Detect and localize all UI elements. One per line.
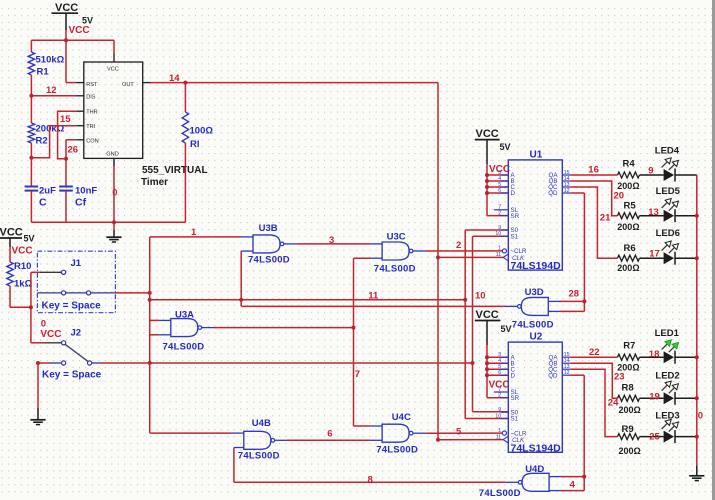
capacitor Cf 10nF (59, 186, 97, 223)
net label 2 (456, 240, 461, 251)
wire U1 QB to R5 (570, 181, 617, 216)
switch J2 arm (65, 344, 88, 361)
svg-text:DIS: DIS (86, 94, 96, 100)
net label 18 (649, 349, 660, 360)
svg-text:U2: U2 (530, 332, 543, 343)
net label 26 (68, 145, 79, 156)
wire U4D inputs from net 4 (549, 477, 584, 491)
resistor R2 200k (28, 96, 64, 158)
net label 0 at 555 ground (112, 188, 117, 199)
wire net 5 U4C out to U2 CLR (413, 432, 502, 434)
svg-text:5V: 5V (501, 324, 512, 334)
wire THR net 15 (58, 111, 84, 159)
wire CON net 26 (66, 140, 84, 187)
junction LED2 return (695, 396, 699, 400)
window edge right (712, 0, 715, 500)
svg-text:6: 6 (498, 370, 501, 376)
svg-text:12: 12 (564, 188, 570, 194)
svg-text:SR: SR (511, 213, 520, 220)
junction J2/ground (36, 361, 40, 365)
svg-text:0: 0 (41, 318, 46, 329)
svg-text:1kΩ: 1kΩ (14, 279, 33, 290)
power VCC symbol above U1 (475, 128, 511, 175)
junction OUT/RI (183, 81, 187, 85)
svg-text:100Ω: 100Ω (190, 126, 214, 137)
svg-text:LED4: LED4 (655, 145, 680, 156)
junction net11 start (148, 298, 152, 302)
junction VCC/R1/RST (64, 38, 68, 42)
LED LED1 (655, 328, 680, 364)
wire U3B lower input drop (240, 251, 242, 306)
wire R6 to LED6 (640, 257, 664, 259)
svg-text:U3D: U3D (525, 287, 544, 298)
LED LED4 (655, 145, 680, 181)
wire LED1 cathode (675, 356, 697, 358)
gate U3B NAND (248, 223, 290, 265)
wire net 3 U3B out to U3C (284, 243, 382, 245)
junction U3D inputs (582, 299, 586, 303)
wire J1/J2 common feed (30, 272, 32, 343)
svg-text:21: 21 (600, 213, 611, 224)
power VCC symbol (left, R10) (0, 227, 35, 257)
switch J1 pole terminal (31, 270, 66, 274)
svg-text:S1: S1 (511, 416, 519, 423)
svg-text:2: 2 (456, 240, 461, 251)
wire U2 VCC to A B C D SR (487, 352, 508, 398)
svg-text:200Ω: 200Ω (617, 181, 639, 191)
svg-text:74LS00D: 74LS00D (479, 488, 521, 499)
wire U1 CLK (438, 256, 503, 258)
svg-text:200Ω: 200Ω (617, 263, 639, 273)
svg-text:VCC: VCC (55, 2, 78, 14)
wire R5 to LED5 (640, 215, 664, 217)
junction U2 VCC pins (485, 355, 489, 377)
label Key = Space (J1) (42, 301, 102, 312)
label J1 (71, 258, 82, 269)
net label 6 (327, 429, 332, 440)
junction U4D inputs (582, 475, 586, 479)
wire net 1 / J1 vertical (149, 237, 151, 363)
junction LED5 return (695, 214, 699, 218)
svg-text:OUT: OUT (122, 82, 134, 88)
junction net7 / U3A out (352, 326, 356, 330)
svg-text:2: 2 (498, 393, 501, 399)
svg-text:QD: QD (548, 372, 558, 379)
net label 8 (368, 474, 373, 485)
wire U1 S1 (473, 235, 509, 237)
wire net 11 (150, 299, 466, 301)
wire J2 output line (long VCC line) (100, 362, 473, 364)
switch J2 pole terminal (31, 341, 66, 345)
svg-text:6: 6 (498, 188, 501, 194)
net label 15 (60, 114, 71, 125)
wire net 28 QD1 drop (570, 193, 584, 311)
net label 7 (355, 369, 360, 380)
LED LED2 (655, 370, 679, 405)
svg-text:200Ω: 200Ω (617, 363, 639, 373)
wire LED3 cathode (675, 436, 697, 438)
svg-text:THR: THR (86, 110, 98, 116)
junction J1 out (148, 291, 152, 295)
svg-text:1: 1 (498, 246, 501, 252)
junction net11 / U3B input (239, 298, 243, 302)
wire net 4 QD2 drop (570, 375, 584, 490)
svg-text:Cf: Cf (75, 197, 87, 209)
wire U2 S1 (465, 418, 508, 420)
shift register U2 74LS194D (494, 332, 571, 455)
label 555_VIRTUAL Timer (141, 165, 208, 188)
net label 16 (588, 164, 599, 175)
svg-text:74LS00D: 74LS00D (238, 450, 280, 461)
wire LED2 cathode (675, 397, 697, 399)
svg-text:5V: 5V (82, 16, 93, 26)
net label 0 (ground near J2) (41, 318, 46, 329)
svg-text:VCC: VCC (107, 67, 119, 73)
timer U3 555 box (84, 54, 143, 159)
wire U3D output stub (505, 305, 518, 307)
wire U2 QC to R9 (570, 369, 617, 436)
svg-text:0: 0 (112, 188, 117, 199)
net label 24 (608, 397, 619, 408)
net label 1 (191, 227, 197, 238)
net label 22 (589, 347, 600, 358)
svg-text:R4: R4 (623, 159, 636, 170)
resistor R7 200 (617, 340, 639, 372)
svg-text:555_VIRTUAL: 555_VIRTUAL (142, 165, 208, 176)
wire U3A inputs (150, 320, 171, 334)
svg-text:VCC: VCC (12, 246, 33, 257)
svg-text:LED5: LED5 (656, 186, 681, 197)
svg-text:9: 9 (648, 165, 653, 176)
svg-text:74LS00D: 74LS00D (374, 263, 416, 274)
wire R9 to LED3 (640, 436, 664, 438)
svg-text:LED2: LED2 (655, 370, 679, 381)
wire U1 VCC to A B C D SR (487, 171, 508, 216)
svg-text:VCC: VCC (40, 329, 61, 340)
svg-text:CON: CON (86, 138, 98, 144)
svg-text:12: 12 (564, 370, 570, 376)
svg-text:R1: R1 (37, 67, 50, 78)
svg-text:LED1: LED1 (655, 328, 680, 339)
LED LED5 (656, 186, 681, 222)
svg-text:8: 8 (368, 474, 373, 485)
svg-text:VCC: VCC (476, 128, 499, 140)
wire U3C lower input from net 7 (354, 257, 383, 259)
net label 21 (600, 213, 611, 224)
net label 19 (649, 391, 660, 402)
svg-text:R6: R6 (624, 243, 636, 254)
shift register U1 74LS194D (494, 149, 571, 272)
svg-text:2uF: 2uF (39, 186, 56, 197)
switch J1 box (37, 251, 115, 313)
wire 555 GND pin net 0 (113, 158, 115, 236)
svg-text:VCC: VCC (476, 309, 499, 321)
svg-text:R5: R5 (624, 200, 637, 211)
junction net 11 / S0 vertical (463, 298, 467, 302)
svg-text:74LS00D: 74LS00D (248, 254, 290, 265)
wire U1 QC to R6 (570, 187, 617, 258)
net label VCC (J2) (40, 329, 61, 340)
gate U4B NAND (238, 418, 280, 462)
svg-text:7: 7 (355, 369, 360, 380)
wire net 2 U3C out to U1 CLR (413, 250, 502, 252)
resistor RI 100 (182, 83, 213, 223)
wire RST (66, 40, 84, 82)
svg-text:74LS194D: 74LS194D (511, 260, 562, 272)
svg-text:Key = Space: Key = Space (42, 370, 102, 381)
junction J2 line / S1 vertical (471, 361, 475, 365)
wire U3A output net 7 (202, 327, 354, 329)
svg-text:R10: R10 (14, 261, 31, 272)
svg-text:11: 11 (368, 291, 379, 302)
svg-text:11: 11 (496, 252, 501, 258)
svg-text:10nF: 10nF (75, 186, 97, 197)
svg-text:RST: RST (86, 82, 98, 88)
svg-text:QD: QD (548, 190, 558, 197)
net label 3 (329, 235, 334, 246)
svg-text:TRI: TRI (86, 124, 95, 130)
junction R2/C/TRI (29, 156, 33, 160)
wire U1 S0 (465, 229, 508, 231)
resistor R8 200 (618, 383, 641, 415)
svg-text:VCC: VCC (69, 25, 90, 36)
wire U2 CLK (438, 439, 503, 441)
svg-text:9: 9 (498, 407, 501, 413)
svg-text:17: 17 (649, 249, 660, 260)
svg-text:200Ω: 200Ω (619, 405, 641, 415)
svg-text:26: 26 (68, 145, 79, 156)
svg-text:24: 24 (608, 397, 619, 408)
svg-text:15: 15 (60, 114, 71, 125)
svg-text:U3B: U3B (259, 223, 278, 234)
net label 10 (475, 291, 486, 302)
wire U3D inputs from net 28 (548, 301, 584, 311)
svg-text:23: 23 (614, 371, 625, 382)
svg-text:200Ω: 200Ω (619, 446, 641, 456)
svg-text:Timer: Timer (141, 177, 168, 188)
svg-text:5: 5 (456, 426, 462, 437)
svg-text:LED3: LED3 (655, 411, 679, 422)
switch J2 contacts (38, 361, 100, 365)
power VCC symbol above U2 (475, 309, 512, 390)
svg-text:10: 10 (495, 413, 501, 419)
svg-text:J2: J2 (71, 328, 82, 339)
svg-text:J1: J1 (71, 258, 82, 269)
svg-text:Key = Space: Key = Space (42, 301, 102, 312)
svg-text:U1: U1 (530, 149, 543, 160)
net label 0 (LED return) (698, 410, 703, 421)
svg-text:6: 6 (327, 429, 332, 440)
svg-text:R8: R8 (622, 383, 634, 394)
net label 23 (614, 371, 625, 382)
wire TRI (31, 126, 83, 158)
svg-text:R7: R7 (623, 340, 635, 351)
ground symbol right (689, 476, 704, 481)
capacitor C 2uF (25, 158, 56, 223)
svg-text:74LS00D: 74LS00D (376, 445, 418, 456)
net label 9 (648, 165, 653, 176)
junction CLK U2 (436, 438, 440, 442)
svg-text:22: 22 (589, 347, 600, 358)
net label 17 (649, 249, 660, 260)
net label 11 (368, 291, 379, 302)
svg-text:U4B: U4B (252, 418, 271, 429)
ground symbol under 555 (106, 237, 121, 242)
junction THR/CON (64, 157, 68, 161)
svg-text:U3C: U3C (387, 231, 406, 242)
net label 4 (570, 480, 576, 491)
net label 20 (614, 190, 625, 201)
wire U2 S0 (473, 411, 509, 413)
net label 5 (456, 426, 462, 437)
wire J1 output net 1 (115, 292, 149, 294)
junction R10 tap (29, 305, 33, 309)
wire net 6 U4B out to U4C (275, 439, 383, 441)
wire net 1 to U3B (150, 236, 241, 238)
wire U3B input stubs (241, 237, 253, 251)
wire R4 to LED4 (640, 174, 664, 176)
wire net 8 U4D out (234, 481, 518, 483)
wire DIS net 12 (31, 95, 83, 97)
switch J1 closed contacts (37, 291, 115, 295)
wire U4C upper input from net 7 (354, 425, 383, 427)
junction LED1 return (695, 355, 699, 359)
net label 14 (169, 73, 180, 84)
svg-text:R2: R2 (36, 136, 48, 147)
svg-text:2: 2 (498, 210, 501, 216)
resistor R10 1k (7, 247, 33, 307)
power VCC symbol (top, net VCC) (52, 2, 94, 40)
wire LED common return net 0 (696, 175, 698, 475)
wire LED4 cathode (675, 174, 697, 176)
svg-text:16: 16 (588, 164, 599, 175)
ground symbol lower-left (30, 420, 45, 425)
svg-text:5V: 5V (24, 234, 35, 244)
svg-text:LED6: LED6 (656, 228, 680, 239)
wire ground rail net 0 (31, 221, 185, 223)
wire U2 QA to R7 (570, 356, 617, 358)
junction LED6 return (695, 256, 699, 260)
resistor R9 200 (618, 424, 641, 456)
svg-text:74LS00D: 74LS00D (512, 320, 554, 331)
svg-text:S1: S1 (511, 234, 519, 241)
resistor R4 200 (617, 159, 639, 192)
svg-text:1: 1 (191, 227, 197, 238)
wire U1 QA to R4 (570, 174, 617, 176)
LED LED3 (655, 411, 679, 444)
wire OUT net 14 to CLK rail (143, 83, 438, 440)
wire LED6 cathode (675, 257, 697, 259)
svg-text:10: 10 (495, 231, 501, 237)
junction rail/GND (112, 220, 116, 224)
LED LED6 (656, 228, 680, 265)
wire net 7 vertical (353, 258, 355, 426)
net label 13 (648, 207, 659, 218)
svg-text:U4C: U4C (392, 412, 411, 423)
net label 28 (569, 288, 580, 299)
resistor R5 200 (617, 200, 639, 232)
gate U3D NAND (mirrored) (512, 287, 554, 330)
wire U3D output line net 10 (241, 305, 505, 307)
svg-text:VCC: VCC (0, 227, 23, 239)
wire net 8 to U4B lower input (234, 448, 244, 483)
wire U3A net line to U4B input (150, 363, 244, 433)
svg-text:74LS194D: 74LS194D (511, 442, 562, 454)
wire R8 to LED2 (640, 397, 664, 399)
resistor R1 510k (28, 40, 64, 96)
svg-text:13: 13 (648, 207, 659, 218)
svg-text:D: D (511, 372, 516, 379)
svg-text:C: C (39, 197, 47, 209)
svg-text:0: 0 (698, 410, 703, 421)
svg-text:9: 9 (498, 225, 501, 231)
svg-text:14: 14 (169, 73, 180, 84)
svg-text:U4D: U4D (525, 464, 544, 475)
svg-text:74LS00D: 74LS00D (163, 341, 205, 352)
label Key = Space (J2) (42, 370, 102, 381)
svg-text:10: 10 (475, 291, 486, 302)
svg-text:20: 20 (614, 190, 625, 201)
wire R7 to LED1 (640, 356, 664, 358)
wire S0 cross vertical (U1.S0 to U2.S1) net 11 (464, 230, 466, 419)
svg-text:SR: SR (511, 395, 520, 402)
svg-text:R9: R9 (622, 424, 634, 435)
wire VCC distribution top (31, 40, 114, 53)
svg-text:GND: GND (106, 152, 118, 158)
junction U1 VCC pins (485, 173, 489, 195)
junction R1/R2/DIS (29, 94, 33, 98)
net label 12 (46, 85, 57, 96)
svg-text:RI: RI (190, 139, 200, 150)
svg-text:510kΩ: 510kΩ (36, 55, 65, 66)
svg-text:D: D (511, 190, 516, 197)
gate U3C NAND (374, 231, 416, 274)
wire J2 ground drop (37, 363, 39, 419)
resistor R6 200 (617, 243, 639, 273)
junction CLK U1 (436, 255, 440, 259)
gate U4C NAND (376, 412, 418, 456)
wire S1 cross vertical (U1.S1 to U2.S0) (472, 236, 474, 411)
label J2 (71, 328, 82, 339)
svg-text:25: 25 (649, 431, 660, 442)
wire U2 QB to R8 (570, 363, 617, 398)
svg-text:18: 18 (649, 349, 660, 360)
svg-text:4: 4 (570, 480, 576, 491)
svg-text:U3A: U3A (175, 309, 194, 320)
op-amp U3A NAND gate (163, 309, 205, 352)
junction J2 line / U3A (148, 361, 152, 365)
svg-text:19: 19 (649, 391, 660, 402)
svg-text:3: 3 (329, 235, 334, 246)
gate U4D NAND (mirrored) (479, 464, 549, 499)
svg-text:28: 28 (569, 288, 580, 299)
net label 25 (649, 431, 660, 442)
junction LED3 return (695, 435, 699, 439)
svg-text:12: 12 (46, 85, 57, 96)
svg-text:200Ω: 200Ω (617, 222, 639, 232)
wire LED5 cathode (675, 215, 697, 217)
svg-text:5V: 5V (500, 142, 511, 152)
